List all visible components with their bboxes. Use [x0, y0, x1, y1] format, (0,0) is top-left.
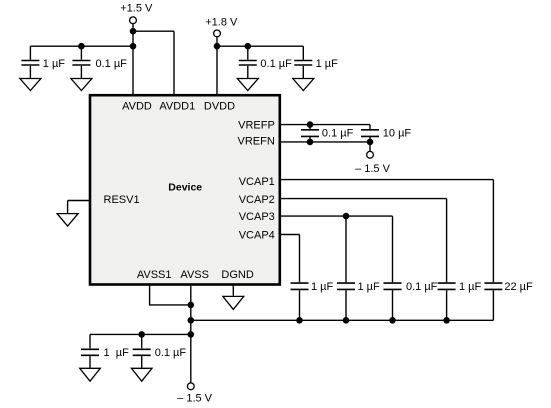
svg-text:1 µF: 1 µF [311, 281, 334, 293]
svg-text:Device: Device [168, 182, 202, 194]
supply terminal -1.5 V (VREFN) [355, 151, 391, 174]
node junction C6 bottom [367, 139, 374, 146]
wire +1.5V to AVDD [132, 24, 134, 96]
svg-text:0.1 µF: 0.1 µF [406, 281, 438, 293]
svg-text:1 µF: 1 µF [358, 281, 381, 293]
supply terminal +1.8 V [205, 17, 238, 37]
capacitor C1 1 uF [21, 58, 65, 79]
svg-text:0.1 µF: 0.1 µF [155, 347, 187, 359]
svg-text:1 µF: 1 µF [316, 58, 339, 70]
wire VCAP3 tap to C8 [345, 216, 347, 282]
node junction +1.5V lower [130, 43, 137, 50]
capacitor C11 22 uF (VCAP1) [484, 281, 533, 320]
capacitor C8 1 uF (VCAP3) [337, 281, 380, 320]
wire left caps [90, 334, 191, 348]
svg-text:+1.5 V: +1.5 V [120, 3, 153, 15]
svg-text:0.1 µF: 0.1 µF [260, 58, 292, 70]
svg-text:0.1 µF: 0.1 µF [96, 58, 128, 70]
svg-text:VCAP2: VCAP2 [239, 194, 275, 206]
svg-text:1 µF: 1 µF [459, 281, 482, 293]
wire RESV1 [68, 201, 90, 214]
ground [293, 79, 314, 91]
capacitor C7 1 uF (VCAP4) [291, 281, 334, 320]
wire bottom bus [191, 319, 494, 321]
wire VREFP [281, 124, 370, 126]
svg-text:– 1.5 V: – 1.5 V [355, 163, 391, 175]
supply terminal +1.5 V [120, 3, 153, 24]
capacitor C2 0.1 uF [72, 58, 127, 79]
wire +1.8V right branch [217, 46, 303, 60]
capacitor C13 0.1 uF (AVSS) [133, 347, 187, 368]
svg-text:AVSS1: AVSS1 [137, 269, 172, 281]
svg-text:10 µF: 10 µF [383, 127, 412, 139]
wire VCAP1 [281, 180, 494, 283]
ground [80, 368, 101, 381]
svg-text:AVDD1: AVDD1 [159, 101, 195, 113]
svg-text:RESV1: RESV1 [104, 194, 140, 206]
node junction +1.5V upper [130, 28, 137, 35]
wire VCAP3 [281, 216, 393, 282]
wire +1.5V to AVDD1 [133, 31, 174, 95]
node junction C13 tap [138, 331, 145, 338]
wire +1.8V to DVDD [216, 37, 218, 96]
capacitor C3 0.1 uF [239, 58, 292, 79]
svg-text:VREFP: VREFP [238, 119, 275, 131]
wire VCAP4 [281, 235, 300, 283]
svg-text:AVDD: AVDD [122, 101, 152, 113]
capacitor C4 1 uF [294, 58, 338, 79]
capacitor C9 0.1 uF (VCAP3) [384, 281, 438, 320]
capacitor C5 0.1 uF [301, 125, 354, 142]
node junction VCAP3 tap [343, 213, 350, 220]
ground [223, 296, 244, 309]
capacitor C10 1 uF (VCAP2) [438, 281, 482, 320]
ground [57, 214, 78, 227]
wire C3 lead [247, 46, 249, 60]
svg-text:22 µF: 22 µF [504, 281, 533, 293]
svg-text:DGND: DGND [221, 269, 253, 281]
svg-text:VCAP3: VCAP3 [239, 211, 275, 223]
node junction bus C7 [296, 317, 303, 324]
svg-text:0.1 µF: 0.1 µF [322, 127, 354, 139]
node junction bus C9 [389, 317, 396, 324]
node junction +1.8V [214, 43, 221, 50]
node junction bus C10 [443, 317, 450, 324]
capacitor C6 10 uF [361, 125, 411, 142]
wire to -1.5V terminal [369, 142, 371, 152]
svg-text:DVDD: DVDD [204, 101, 235, 113]
wire C2 lead [80, 46, 82, 60]
svg-text:– 1.5 V: – 1.5 V [177, 392, 213, 404]
ground [131, 368, 152, 381]
capacitor C12 1 uF (AVSS) [81, 347, 129, 368]
node junction AVSS1/AVSS [188, 302, 195, 309]
wire C13 lead [141, 334, 143, 348]
node junction C2 tap [78, 43, 85, 50]
node junction C3 tap [245, 43, 252, 50]
svg-text:VREFN: VREFN [238, 136, 275, 148]
node junction AVSS bus [188, 317, 195, 324]
wire AVSS1 [150, 285, 191, 305]
ground [71, 79, 92, 91]
wire +1.5V left branch [30, 46, 133, 60]
svg-text:1 µF: 1 µF [43, 58, 66, 70]
ground [237, 79, 258, 91]
svg-text:VCAP4: VCAP4 [239, 230, 275, 242]
node junction C5 top [307, 121, 314, 128]
svg-text:+1.8 V: +1.8 V [205, 17, 238, 29]
svg-text:VCAP1: VCAP1 [239, 176, 275, 188]
device U1 (Device) [90, 95, 280, 284]
svg-text:1 µF: 1 µF [104, 347, 130, 359]
ground [20, 79, 41, 91]
wire VREFN [281, 141, 370, 143]
node junction bus C8 [343, 317, 350, 324]
svg-text:AVSS: AVSS [180, 269, 209, 281]
wire DGND [232, 285, 234, 297]
wire AVSS vertical [190, 285, 192, 383]
supply terminal -1.5 V (AVSS) [177, 383, 213, 404]
node junction AVSS left caps [188, 331, 195, 338]
node junction C5 bottom [307, 139, 314, 146]
wire VCAP2 [281, 199, 447, 283]
